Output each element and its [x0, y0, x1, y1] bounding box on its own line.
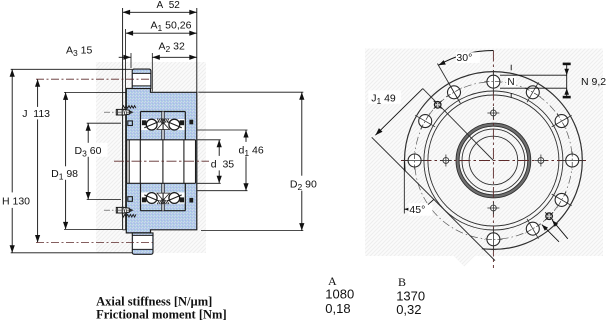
- grease hole dim line 1: [552, 220, 568, 239]
- right view horizontal centerline: [401, 160, 586, 162]
- 30 deg radius line: [437, 64, 460, 104]
- thread hole square top: [128, 121, 133, 126]
- bolt hole N at 120 deg: [555, 193, 568, 206]
- top boss hole lines: [132, 72, 151, 74]
- dim line D1 98: [65, 92, 67, 229]
- locknut square top: [189, 120, 193, 125]
- svg-text:A3 15: A3 15: [66, 45, 93, 59]
- svg-text:45°: 45°: [409, 204, 425, 216]
- ext D1 top: [64, 91, 123, 93]
- threaded hole at 90 deg: [538, 158, 544, 164]
- svg-text:0,32: 0,32: [396, 302, 421, 317]
- label 45 deg: [408, 203, 432, 216]
- shoulder circle d1: [462, 129, 525, 192]
- 45 deg extension line: [403, 162, 405, 214]
- bearing bottom row (paired angular contact, balls): [141, 210, 186, 212]
- dim A2 extension line: [151, 53, 153, 92]
- 45 deg leader tick: [428, 199, 434, 204]
- dim line J1: [375, 89, 422, 136]
- bolt hole N at 300 deg: [419, 115, 432, 128]
- bolt hole N at 180 deg: [487, 233, 500, 246]
- right view vertical centerline: [492, 51, 494, 269]
- bolt hole N at 30 deg: [526, 86, 539, 99]
- bottom dowel-hole boss: [132, 233, 153, 254]
- dim line A2 32: [152, 56, 197, 58]
- ext H bottom: [11, 252, 132, 254]
- ext D3 bottom: [87, 199, 121, 201]
- top dowel-hole boss: [132, 69, 151, 88]
- bearing seat ring edges: [456, 123, 531, 198]
- label D1 98: [50, 166, 83, 180]
- svg-text:d1 46: d1 46: [239, 145, 264, 159]
- dim line D3 60: [87, 123, 89, 199]
- flange flat cut white-out: [386, 170, 483, 267]
- svg-text:B: B: [398, 275, 406, 289]
- svg-text:D1 98: D1 98: [51, 168, 78, 182]
- 30 deg arc: [438, 50, 493, 65]
- ext H top: [11, 68, 132, 70]
- svg-text:A1 50,26: A1 50,26: [151, 20, 192, 34]
- 45 deg arrow: [404, 208, 412, 210]
- label N: [506, 76, 516, 87]
- dim line A3 15: [119, 56, 131, 58]
- grease nipple top: [116, 109, 122, 115]
- dim line J 113: [37, 79, 39, 242]
- svg-text:N: N: [507, 77, 514, 88]
- N ticks at hole: [510, 65, 512, 71]
- svg-text:D3 60: D3 60: [75, 145, 102, 159]
- ext D1 bottom: [64, 228, 123, 230]
- ext d top: [197, 139, 220, 141]
- housing flange cross-section (blue): [126, 89, 197, 233]
- spigot circle D1: [424, 91, 563, 230]
- thread seat zigzag bottom: [122, 214, 136, 217]
- background texture panel left view: [96, 62, 206, 253]
- bore and sleeve lines: [126, 140, 128, 184]
- label D3 60: [74, 143, 108, 157]
- ext d bottom: [197, 182, 220, 184]
- N tangent lines: [500, 74, 567, 76]
- bolt hole N at 0 deg: [487, 75, 500, 88]
- svg-text:J 113: J 113: [22, 108, 50, 120]
- svg-text:1080: 1080: [325, 286, 354, 301]
- bearing seat dark ring: [458, 125, 530, 197]
- dim line d 35: [218, 140, 220, 184]
- svg-text:A2 32: A2 32: [159, 40, 186, 54]
- grease nipple bottom: [116, 207, 122, 213]
- svg-text:A 52: A 52: [157, 0, 181, 11]
- bolt circle (dash-dot): [415, 82, 573, 240]
- threaded hole at 270 deg: [443, 158, 449, 164]
- svg-text:d 35: d 35: [211, 159, 235, 171]
- dim A3 extension line: [130, 53, 132, 68]
- dim A extension lines: [122, 8, 124, 92]
- svg-text:0,18: 0,18: [325, 301, 350, 316]
- svg-text:H 130: H 130: [2, 196, 30, 208]
- dim line A1 50,26: [126, 32, 197, 34]
- flange flat cut edge: [372, 137, 495, 260]
- top boss hole (white): [133, 73, 150, 86]
- dim line A 52: [123, 11, 197, 13]
- ext J bottom (boss centerline): [36, 242, 153, 244]
- bolt hole N at 90 deg: [566, 154, 579, 167]
- N 9,2 dimension line: [566, 64, 568, 98]
- bore hole (white): [127, 140, 196, 184]
- grease hole dim line 2: [542, 225, 559, 242]
- locknut square bottom: [189, 198, 193, 203]
- bolt hole N at 330 deg: [448, 86, 461, 99]
- bottom boss hole (white): [133, 235, 152, 249]
- ext D2 bottom: [201, 230, 303, 232]
- threaded hole at 180 deg: [491, 205, 497, 211]
- label D2 90: [289, 176, 322, 191]
- label 30 deg: [456, 52, 480, 63]
- label J1 49: [368, 90, 401, 104]
- ext d1 top: [197, 129, 247, 131]
- flange front rim lines: [122, 92, 124, 229]
- flange outer circle: [405, 72, 583, 250]
- bottom boss hole lines: [132, 234, 153, 236]
- svg-text:D2 90: D2 90: [290, 178, 317, 192]
- label d1 46: [238, 142, 270, 157]
- dim line H 130: [11, 69, 13, 253]
- dim line d1 46: [245, 130, 247, 191]
- background texture panel right view: [365, 49, 603, 257]
- threaded hole at 0 deg: [491, 110, 497, 116]
- thread seat zigzag top: [122, 106, 136, 109]
- bolt hole N at 270 deg: [408, 154, 421, 167]
- svg-text:N 9,2: N 9,2: [581, 76, 606, 88]
- label J 113: [21, 107, 54, 120]
- thread hole square bottom: [128, 197, 133, 202]
- dim line D2 90: [301, 92, 303, 230]
- label H 130: [1, 192, 34, 208]
- ext d1 bottom: [197, 190, 247, 192]
- bolt hole N at 150 deg: [526, 222, 539, 235]
- 45-degree radius line: [423, 89, 494, 161]
- grease hole upper-left: [434, 102, 441, 109]
- ext D2 top: [198, 91, 303, 93]
- bore circle d: [469, 136, 518, 185]
- svg-text:30°: 30°: [456, 52, 472, 64]
- svg-text:Axial stiffness [N/µm]: Axial stiffness [N/µm]: [96, 294, 212, 308]
- section axis centerline: [114, 160, 209, 162]
- grease hole lower-right: [546, 213, 553, 220]
- bolt hole N at 60 deg: [555, 115, 568, 128]
- raised face circle D2: [428, 95, 559, 226]
- label d 35: [210, 156, 239, 171]
- svg-text:Frictional moment [Nm]: Frictional moment [Nm]: [96, 307, 227, 321]
- svg-text:J1 49: J1 49: [371, 93, 396, 107]
- bearing top row (paired angular contact, balls): [141, 111, 186, 113]
- ext D3 top: [87, 122, 121, 124]
- ext J top (boss centerline): [36, 78, 151, 80]
